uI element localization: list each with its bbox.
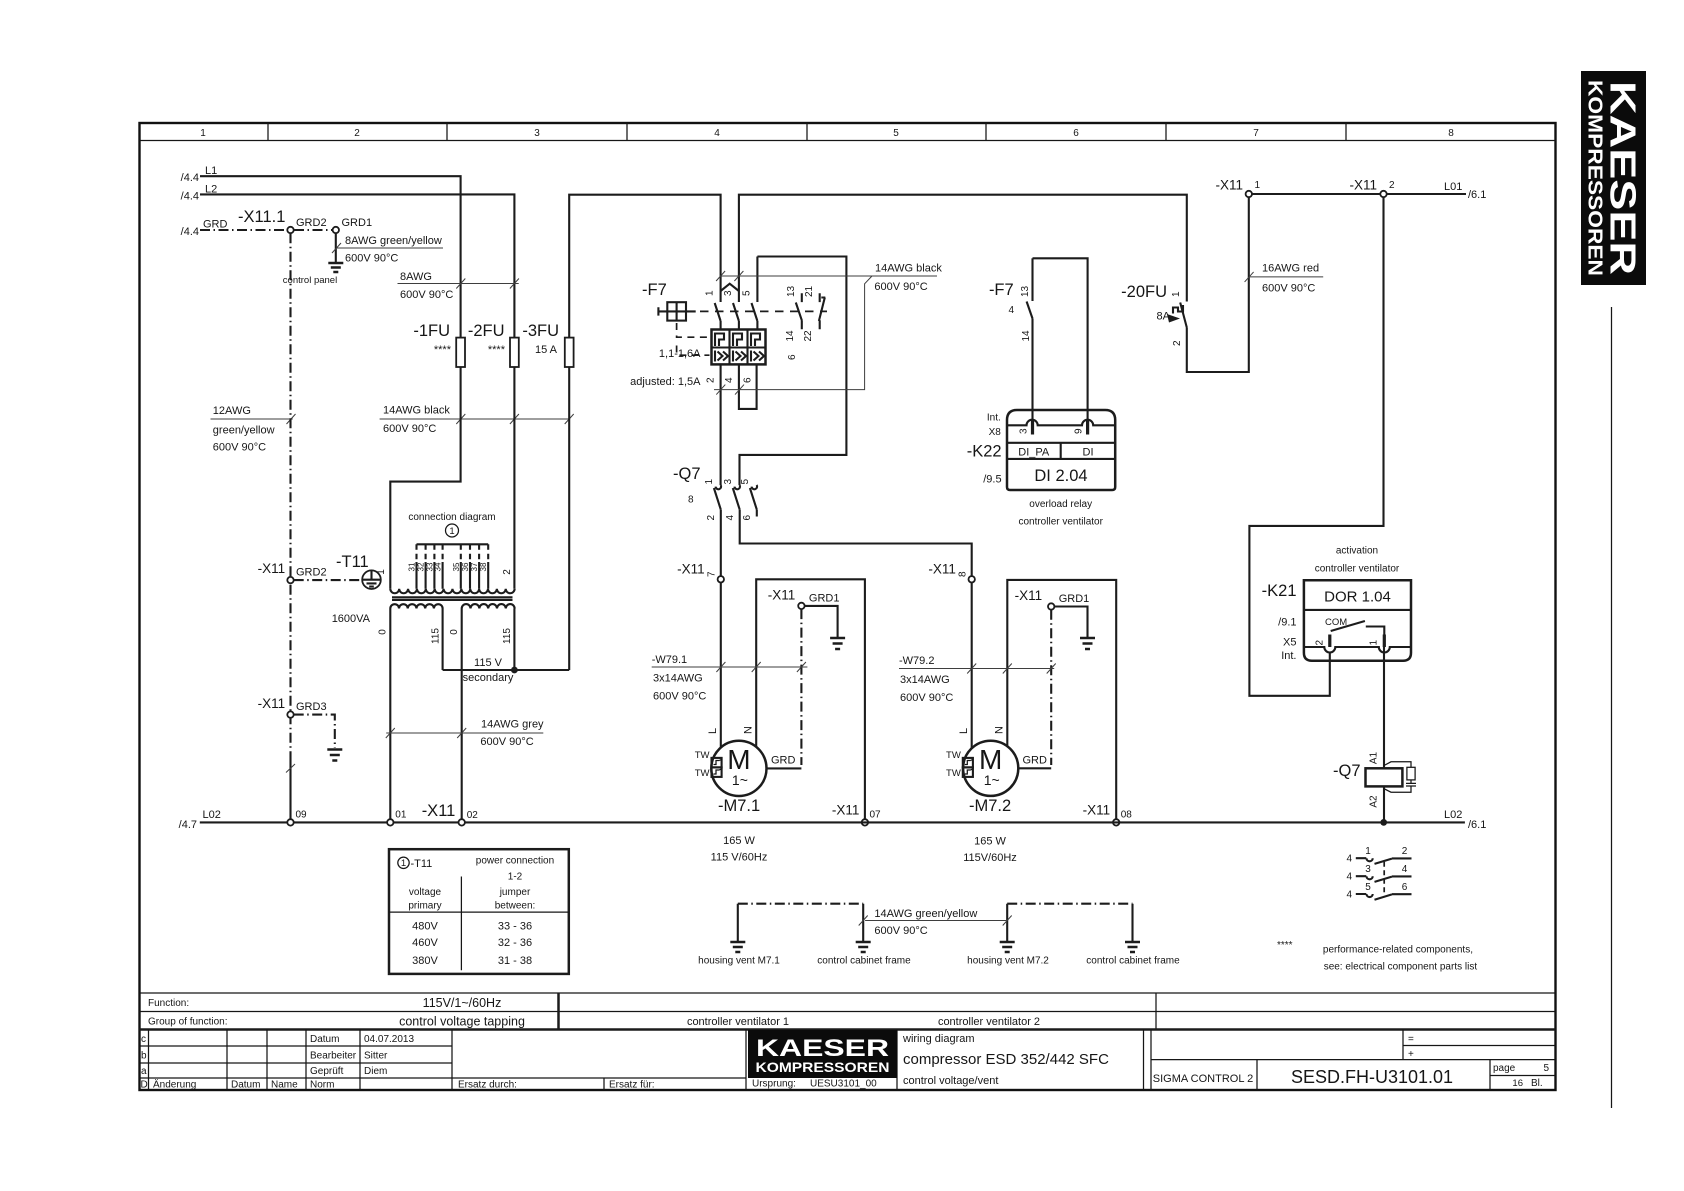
svg-text:Datum: Datum [310, 1034, 339, 1045]
wire F7 pole3 top to Q7 pin3 [740, 257, 847, 486]
wire secondary 0 to X11:01 [389, 609, 391, 820]
svg-text:4: 4 [1346, 890, 1352, 901]
svg-text:****: **** [434, 344, 452, 356]
svg-text:36: 36 [461, 562, 470, 571]
frame outer border [140, 123, 1556, 1090]
svg-text:2: 2 [1315, 640, 1326, 646]
right margin vertical line [1611, 307, 1613, 1108]
wire secondary 115 (b) [513, 609, 515, 671]
svg-text:-X11: -X11 [258, 696, 286, 711]
svg-text:UESU3101_00: UESU3101_00 [810, 1079, 877, 1090]
svg-text:3x14AWG: 3x14AWG [653, 673, 703, 685]
svg-text:3x14AWG: 3x14AWG [900, 674, 950, 686]
svg-text:jumper: jumper [499, 887, 531, 898]
F7 pole 1-3 bridge [721, 284, 739, 291]
svg-text:1: 1 [704, 479, 715, 485]
wire F7 pole2-pole3 loop [739, 364, 757, 409]
svg-text:1: 1 [1255, 180, 1261, 191]
svg-text:600V 90°C: 600V 90°C [874, 281, 927, 293]
svg-text:4: 4 [724, 377, 735, 383]
svg-text:32 - 36: 32 - 36 [498, 937, 532, 949]
svg-text:-X11: -X11 [832, 803, 860, 818]
Q7 pole 1 [716, 485, 721, 489]
svg-text:600V 90°C: 600V 90°C [383, 423, 436, 435]
node X11:02 [459, 810, 479, 826]
wire Q7 pin4 to M7.2 [740, 510, 972, 749]
wire L2 [181, 183, 515, 337]
svg-text:5: 5 [740, 479, 751, 485]
svg-text:DI 2.04: DI 2.04 [1034, 467, 1087, 485]
svg-text:DI_PA: DI_PA [1018, 447, 1050, 459]
F7 aux contact 21-22 [819, 293, 825, 329]
label 115V secondary [463, 657, 514, 684]
svg-text:-X11: -X11 [1215, 178, 1243, 193]
svg-text:165 W: 165 W [723, 835, 755, 847]
svg-text:600V 90°C: 600V 90°C [874, 925, 927, 937]
svg-text:165 W: 165 W [974, 836, 1006, 848]
wire GRD dash-dot M7.1 [800, 609, 802, 765]
cable label 14AWG green/yellow (PE) [859, 908, 1012, 937]
svg-text:GRD1: GRD1 [809, 593, 840, 605]
svg-text:Bearbeiter: Bearbeiter [310, 1051, 357, 1062]
svg-text:GRD: GRD [203, 219, 228, 231]
svg-text:-2FU: -2FU [468, 322, 505, 340]
svg-text:3: 3 [1019, 428, 1030, 434]
svg-text:GRD3: GRD3 [296, 701, 327, 713]
svg-text:16: 16 [1512, 1078, 1523, 1089]
node GRD2 (X11.1) [287, 217, 326, 233]
svg-text:1: 1 [705, 290, 716, 296]
F7 magnetic elements [715, 351, 764, 362]
svg-text:-X11: -X11 [1083, 803, 1111, 818]
svg-text:-W79.1: -W79.1 [652, 654, 687, 666]
svg-text:X5: X5 [1283, 637, 1296, 649]
svg-text:-M7.1: -M7.1 [718, 797, 760, 815]
wire GRD [181, 219, 287, 239]
svg-text:115: 115 [502, 628, 513, 644]
svg-text:07: 07 [870, 810, 882, 821]
svg-text:A2: A2 [1369, 795, 1380, 808]
svg-text:-X11: -X11 [1015, 588, 1043, 603]
transformer T11 PE symbol [336, 553, 381, 589]
svg-text:green/yellow: green/yellow [213, 425, 275, 437]
svg-text:600V 90°C: 600V 90°C [400, 289, 453, 301]
svg-text:adjusted: 1,5A: adjusted: 1,5A [630, 376, 701, 388]
cable W79.2 [899, 655, 1056, 704]
svg-text:480V: 480V [412, 921, 438, 933]
junction Q7-L02 [1380, 819, 1387, 826]
svg-text:1: 1 [1369, 640, 1380, 646]
wire GRD1 to ground (M7.1) [805, 606, 838, 637]
svg-text:115V/60Hz: 115V/60Hz [963, 852, 1017, 864]
svg-text:control cabinet frame: control cabinet frame [1086, 956, 1180, 967]
svg-text:GRD: GRD [1023, 755, 1048, 767]
svg-text:Datum: Datum [231, 1080, 260, 1091]
wire secondary 115 tap [442, 609, 444, 671]
svg-text:/6.1: /6.1 [1468, 819, 1486, 831]
wire 1FU to transformer primary 1 [390, 367, 460, 589]
ground control panel [283, 263, 344, 286]
K22 function label [1018, 499, 1103, 528]
svg-text:115: 115 [430, 628, 441, 644]
F7 aux contact 13-14 [796, 293, 802, 329]
svg-text:GRD1: GRD1 [1059, 593, 1090, 605]
wire X11:2 to K21 [1249, 197, 1383, 696]
cable label 8AWG (fuse feeders) [398, 271, 519, 301]
KAESER logo vertical top right [1581, 71, 1646, 285]
T11 tap labels 31-38 [408, 562, 489, 571]
wire GRD riser [286, 233, 295, 819]
wire M7.1 N loop [756, 579, 865, 819]
wire M7.2 N loop [1007, 580, 1116, 819]
svg-text:a: a [141, 1066, 147, 1077]
node X11:08 [1083, 803, 1133, 826]
svg-text:L2: L2 [205, 183, 217, 195]
svg-text:1~: 1~ [732, 772, 748, 788]
PE bonding M7.2 [967, 904, 1180, 967]
node X11:2 [1349, 178, 1395, 198]
svg-text:see: electrical component part: see: electrical component parts list [1324, 962, 1478, 973]
svg-text:KAESER: KAESER [756, 1035, 889, 1062]
svg-text:GRD2: GRD2 [296, 217, 327, 229]
cable label 14AWG black (fuse feeders) [380, 405, 574, 436]
svg-text:13: 13 [786, 285, 797, 297]
svg-text:5: 5 [893, 128, 899, 139]
svg-text:-X11.1: -X11.1 [238, 208, 285, 226]
F7 overload box [712, 330, 766, 365]
Q7 contact cross-reference [1346, 846, 1411, 901]
svg-text:/9.1: /9.1 [1278, 617, 1296, 629]
svg-text:compressor ESD 352/442 SFC: compressor ESD 352/442 SFC [903, 1051, 1109, 1068]
T11 core [392, 597, 513, 600]
svg-text:6: 6 [1402, 882, 1408, 893]
motor protection switch F7 [630, 257, 827, 389]
svg-text:5: 5 [742, 290, 753, 296]
fuse 2FU [468, 322, 519, 367]
svg-text:activation: activation [1336, 546, 1378, 557]
svg-text:-Q7: -Q7 [673, 465, 701, 483]
svg-text:8AWG: 8AWG [400, 271, 432, 283]
svg-text:-X11: -X11 [258, 561, 286, 576]
wire L02 [179, 809, 1487, 831]
note performance-related [1277, 940, 1477, 973]
svg-text:3: 3 [723, 290, 734, 296]
svg-text:controller ventilator: controller ventilator [1315, 564, 1400, 575]
svg-text:13: 13 [1020, 285, 1031, 297]
svg-text:115 V: 115 V [474, 657, 503, 669]
svg-text:8AWG green/yellow: 8AWG green/yellow [345, 235, 442, 247]
svg-text:14AWG green/yellow: 14AWG green/yellow [874, 908, 977, 920]
svg-text:DI: DI [1083, 447, 1094, 459]
transformer T11 [376, 512, 515, 644]
svg-text:-X11: -X11 [677, 562, 705, 577]
svg-text:performance-related components: performance-related components, [1323, 945, 1473, 956]
svg-text:15 A: 15 A [535, 344, 558, 356]
wire L1 [181, 165, 461, 338]
node X11:1 [1215, 178, 1260, 198]
svg-text:Diem: Diem [364, 1066, 387, 1077]
svg-text:/4.4: /4.4 [181, 190, 199, 202]
wire GRD2 to T11 PE [294, 579, 362, 581]
node X11:09 [287, 810, 307, 826]
svg-text:9: 9 [1074, 428, 1085, 434]
svg-text:-F7: -F7 [642, 281, 667, 299]
wire GRD2-GRD1 [294, 229, 332, 231]
svg-text:01: 01 [395, 810, 407, 821]
svg-text:primary: primary [408, 901, 441, 912]
M7.1 TW terminals [712, 758, 722, 768]
svg-text:housing vent M7.1: housing vent M7.1 [698, 956, 780, 967]
ground GRD3 [327, 750, 342, 761]
svg-text:02: 02 [467, 810, 479, 821]
svg-text:Änderung: Änderung [153, 1079, 196, 1091]
svg-text:D: D [141, 1080, 148, 1091]
T11 secondary coil b [462, 604, 515, 608]
T11 secondary coil a [390, 604, 442, 608]
svg-text:KOMPRESSOREN: KOMPRESSOREN [756, 1059, 890, 1075]
svg-text:4: 4 [714, 128, 720, 139]
svg-text:c: c [141, 1034, 146, 1045]
svg-text:-K22: -K22 [967, 443, 1002, 461]
svg-text:09: 09 [296, 810, 308, 821]
node X11:07 [832, 803, 881, 826]
svg-text:380V: 380V [412, 955, 438, 967]
svg-text:22: 22 [803, 330, 814, 342]
svg-text:32: 32 [417, 562, 426, 571]
svg-text:/6.1: /6.1 [1468, 189, 1486, 201]
svg-text:0: 0 [449, 629, 460, 635]
fuse 3FU [522, 322, 573, 367]
svg-text:14AWG black: 14AWG black [875, 263, 942, 275]
svg-text:-W79.2: -W79.2 [899, 655, 934, 667]
svg-text:Int.: Int. [1281, 650, 1296, 662]
node X11 GRD1 (M7.2) [1015, 588, 1090, 610]
svg-text:6: 6 [787, 354, 798, 360]
svg-text:31 - 38: 31 - 38 [498, 955, 532, 967]
svg-text:Group of function:: Group of function: [148, 1017, 228, 1028]
node X11:7 [677, 562, 724, 583]
svg-text:-T11: -T11 [336, 553, 369, 571]
svg-text:Ursprung:: Ursprung: [752, 1079, 796, 1090]
Q7 pole 3 spare [752, 485, 757, 489]
junction 115V secondary [511, 667, 518, 674]
svg-text:controller ventilator 1: controller ventilator 1 [687, 1016, 789, 1028]
svg-text:KAESER: KAESER [1603, 81, 1644, 275]
wire 115V secondary bus [443, 669, 570, 671]
svg-text:600V 90°C: 600V 90°C [213, 442, 266, 454]
svg-text:1~: 1~ [984, 772, 1000, 788]
ground control cabinet frame 2 [1125, 942, 1140, 952]
T11 tap bracket [417, 543, 489, 545]
svg-text:+: + [1408, 1049, 1414, 1060]
motor M7.1 [695, 726, 802, 815]
svg-text:14: 14 [785, 330, 796, 342]
node X11 GRD1 (M7.1) [768, 588, 840, 610]
svg-text:4: 4 [1346, 854, 1352, 865]
svg-text:Int.: Int. [987, 413, 1001, 424]
svg-text:control voltage tapping: control voltage tapping [399, 1015, 525, 1029]
svg-text:TW: TW [695, 768, 710, 779]
svg-text:Geprüft: Geprüft [310, 1066, 344, 1077]
F7 operator symbol [658, 307, 695, 315]
wire GRD1 to ground [335, 233, 337, 262]
wire K22 pin9 loop [1033, 258, 1088, 420]
F7 pole 1 contact [715, 303, 721, 330]
svg-text:controller ventilator: controller ventilator [1018, 517, 1103, 528]
svg-text:Sitter: Sitter [364, 1051, 388, 1062]
circuit breaker 20FU [1121, 197, 1249, 372]
svg-text:4: 4 [1346, 872, 1352, 883]
svg-text:L: L [958, 728, 970, 734]
svg-text:Ersatz durch:: Ersatz durch: [458, 1080, 517, 1091]
svg-text:Name: Name [271, 1080, 298, 1091]
svg-text:L: L [707, 728, 719, 734]
svg-text:3: 3 [1365, 864, 1371, 875]
svg-text:control voltage/vent: control voltage/vent [903, 1075, 998, 1087]
node X11 GRD2 [258, 561, 327, 583]
ground housing vent M7.1 [730, 942, 745, 952]
cable W79.1 [652, 654, 808, 703]
svg-text:-X11: -X11 [768, 588, 796, 603]
cable label 14AWG grey [386, 719, 544, 749]
svg-text:/4.4: /4.4 [181, 172, 199, 184]
wire L01 [1252, 181, 1486, 201]
svg-text:-F7: -F7 [989, 281, 1014, 299]
svg-text:8: 8 [688, 495, 694, 506]
svg-text:M: M [727, 744, 750, 775]
svg-text:16AWG red: 16AWG red [1262, 263, 1319, 275]
svg-text:-M7.2: -M7.2 [969, 797, 1011, 815]
svg-text:between:: between: [495, 901, 536, 912]
svg-text:page: page [1493, 1063, 1516, 1074]
svg-text:8A: 8A [1157, 311, 1171, 323]
svg-text:1,1-1,6A: 1,1-1,6A [659, 348, 701, 360]
svg-text:voltage: voltage [409, 887, 442, 898]
svg-text:2: 2 [502, 569, 513, 575]
svg-text:A1: A1 [1369, 751, 1380, 764]
relay output module K21 [1262, 546, 1411, 663]
svg-text:14AWG grey: 14AWG grey [481, 719, 544, 731]
svg-text:08: 08 [1121, 810, 1133, 821]
svg-text:0: 0 [378, 629, 389, 635]
svg-text:/9.5: /9.5 [983, 474, 1001, 486]
svg-text:-Q7: -Q7 [1333, 762, 1361, 780]
T11 power connection table [389, 849, 569, 974]
ground control cabinet frame 1 [856, 942, 871, 952]
svg-text:1600VA: 1600VA [332, 613, 371, 625]
svg-text:/4.4: /4.4 [181, 226, 199, 238]
svg-text:7: 7 [1253, 128, 1259, 139]
M7.2 TW terminals [963, 758, 973, 768]
svg-text:-K21: -K21 [1262, 582, 1297, 600]
svg-text:N: N [743, 726, 755, 734]
node X11:01 [387, 810, 407, 826]
svg-text:34: 34 [434, 562, 443, 571]
wire F7 pole1 out to Q7 pin1 [720, 364, 722, 485]
wire secondary 0 (b) to X11:02 [461, 609, 463, 820]
svg-text:1: 1 [1171, 291, 1182, 297]
svg-text:5: 5 [1543, 1063, 1549, 1074]
cable label 16AWG red [1245, 263, 1324, 295]
svg-text:4: 4 [1402, 864, 1408, 875]
contactor Q7 main contacts [673, 465, 757, 521]
cable label 8AWG green/yellow [332, 235, 443, 265]
svg-text:Ersatz für:: Ersatz für: [609, 1080, 655, 1091]
svg-text:controller ventilator 2: controller ventilator 2 [938, 1016, 1040, 1028]
svg-text:****: **** [488, 344, 506, 356]
ground housing vent M7.2 [1000, 942, 1015, 952]
svg-text:SIGMA CONTROL 2: SIGMA CONTROL 2 [1153, 1073, 1253, 1085]
svg-text:600V 90°C: 600V 90°C [480, 736, 533, 748]
svg-text:Norm: Norm [310, 1080, 334, 1091]
svg-text:1: 1 [376, 569, 387, 575]
svg-text:8: 8 [1448, 128, 1454, 139]
svg-text:wiring diagram: wiring diagram [902, 1033, 975, 1045]
wire K21 pin1 to Q7 coil [1383, 647, 1385, 768]
M7.1 GRD stub [767, 767, 802, 769]
svg-text:b: b [141, 1051, 147, 1062]
wire GRD dash-dot M7.2 [1050, 610, 1052, 765]
F7 thermal elements [715, 334, 724, 347]
svg-text:4: 4 [725, 515, 736, 521]
node GRD1 (X11.1) [333, 217, 372, 233]
svg-text:-X11: -X11 [422, 802, 456, 820]
title block ersatz cells [452, 1030, 877, 1091]
M7.2 rating label [963, 836, 1017, 865]
contactor coil Q7 [1333, 751, 1416, 807]
svg-text:SESD.FH-U3101.01: SESD.FH-U3101.01 [1291, 1067, 1453, 1087]
svg-text:460V: 460V [412, 937, 438, 949]
svg-text:TW: TW [695, 750, 710, 761]
svg-text:600V 90°C: 600V 90°C [900, 692, 953, 704]
svg-text:Function:: Function: [148, 998, 189, 1009]
svg-text:GRD1: GRD1 [342, 217, 373, 229]
svg-text:12AWG: 12AWG [213, 405, 251, 417]
F7 pole 3 contact [752, 257, 758, 330]
svg-text:21: 21 [804, 285, 815, 297]
PE bonding M7.1 [698, 904, 911, 967]
svg-text:6: 6 [743, 377, 754, 383]
svg-text:KOMPRESSOREN: KOMPRESSOREN [1584, 80, 1607, 276]
ground GRD1 (M7.1) [830, 638, 845, 649]
svg-text:31: 31 [408, 562, 417, 571]
svg-text:14AWG black: 14AWG black [383, 405, 450, 417]
fuse 1FU [413, 322, 465, 367]
T11 primary coil [390, 589, 514, 593]
node X11 GRD3 [258, 696, 327, 718]
frame column header [140, 123, 1556, 141]
svg-text:/4.7: /4.7 [179, 819, 197, 831]
wire GRD1 to ground (M7.2) [1054, 607, 1087, 638]
wire GRD3 to ground [294, 715, 335, 748]
svg-text:3: 3 [534, 128, 540, 139]
cable label 14AWG black (F7) [714, 263, 942, 395]
svg-text:connection diagram: connection diagram [408, 512, 495, 523]
wire 115V feed to F7 [569, 195, 720, 338]
title block revision table [140, 1030, 453, 1091]
svg-text:housing vent M7.2: housing vent M7.2 [967, 956, 1049, 967]
wire 3FU to 115V node [568, 367, 570, 670]
title block drawing info [897, 1030, 1556, 1091]
svg-text:N: N [994, 726, 1006, 734]
svg-text:-1FU: -1FU [413, 322, 450, 340]
svg-text:overload relay: overload relay [1029, 499, 1092, 510]
svg-text:-X11: -X11 [928, 562, 956, 577]
svg-text:8: 8 [958, 571, 969, 577]
node X11:8 [928, 562, 975, 583]
svg-text:1: 1 [449, 526, 454, 537]
svg-text:-X11: -X11 [1349, 178, 1377, 193]
